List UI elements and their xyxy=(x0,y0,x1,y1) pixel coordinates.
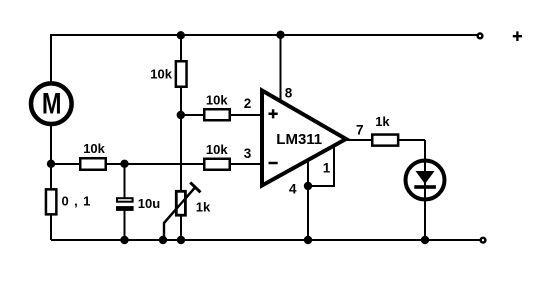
LED body circle xyxy=(406,161,445,200)
svg-text:10k: 10k xyxy=(83,141,105,156)
svg-text:3: 3 xyxy=(244,146,252,161)
resistor 1k output xyxy=(372,135,398,146)
capacitor 10u xyxy=(116,198,134,211)
wire: top supply rail xyxy=(51,34,477,36)
wire: left vertical branch through motor and shunt xyxy=(50,34,52,240)
junction: pin 4 at bottom rail xyxy=(304,236,312,244)
terminal: negative supply (bottom right) xyxy=(481,238,486,243)
svg-text:1: 1 xyxy=(323,160,331,175)
trimmer 1k wiper arrow bar xyxy=(164,182,201,223)
junction: trimmer at bottom rail xyxy=(177,236,185,244)
junction: top rail / vertical 10k xyxy=(177,31,185,39)
resistor 10k to pin 2 xyxy=(204,109,230,120)
op-amp U1 LM311 body xyxy=(262,91,346,186)
svg-text:10k: 10k xyxy=(206,142,228,157)
svg-text:10k: 10k xyxy=(150,66,172,81)
wire: pin 1 strap to pin 4 xyxy=(308,144,334,186)
wire: trimmer wiper to bottom rail xyxy=(164,188,195,241)
wire: capacitor branch to bottom rail xyxy=(124,164,126,240)
wire: bottom return rail xyxy=(51,239,480,241)
op-amp non-inverting + mark xyxy=(269,109,278,118)
wire: pin 4 to bottom rail xyxy=(307,159,309,240)
svg-text:M: M xyxy=(42,87,62,120)
svg-text:8: 8 xyxy=(285,86,293,101)
svg-text:7: 7 xyxy=(356,123,364,138)
wire: motor node to op-amp pin 3 xyxy=(51,163,261,165)
resistor 10k to pin 3 xyxy=(204,159,230,170)
svg-text:4: 4 xyxy=(289,181,297,196)
svg-text:2: 2 xyxy=(244,96,252,111)
junction: top rail / pin 8 xyxy=(276,31,284,39)
junction: left wire / pin 3 row xyxy=(47,160,55,168)
LED diode symbol xyxy=(414,171,436,189)
svg-text:10k: 10k xyxy=(206,93,228,108)
wire: LED branch vertical xyxy=(424,140,426,240)
terminal: positive supply (top right) xyxy=(478,34,483,39)
wire: divider node down through trimmer to bottom rail xyxy=(180,115,182,240)
resistor 10k left (motor node RC filter) xyxy=(80,158,106,170)
svg-text:10u: 10u xyxy=(138,196,160,211)
label: + supply xyxy=(513,31,522,41)
resistor 10k vertical (top divider) xyxy=(176,61,187,87)
resistor 0,1 shunt xyxy=(46,189,56,214)
svg-text:1k: 1k xyxy=(375,114,390,129)
motor M body xyxy=(31,83,72,124)
trimmer 1k body xyxy=(176,191,185,215)
wire: output pin 7 row through 1k xyxy=(343,139,425,141)
junction: wiper at bottom rail xyxy=(159,236,167,244)
svg-text:LM311: LM311 xyxy=(276,131,322,148)
svg-text:1k: 1k xyxy=(196,199,211,214)
junction: capacitor top node xyxy=(120,160,128,168)
wire: divider node to op-amp pin 2 xyxy=(181,114,261,116)
op-amp inverting - mark xyxy=(269,162,278,165)
wire: top rail down through vertical 10k to divider node xyxy=(180,35,182,115)
junction: LED at bottom rail xyxy=(421,236,429,244)
wire: pin 8 to top rail xyxy=(280,35,282,104)
junction: pin 1 / pin 4 strap xyxy=(304,182,312,190)
junction: capacitor at bottom rail xyxy=(120,236,128,244)
svg-text:0 , 1: 0 , 1 xyxy=(62,193,92,208)
junction: divider node (pin 2 row) xyxy=(177,111,185,119)
